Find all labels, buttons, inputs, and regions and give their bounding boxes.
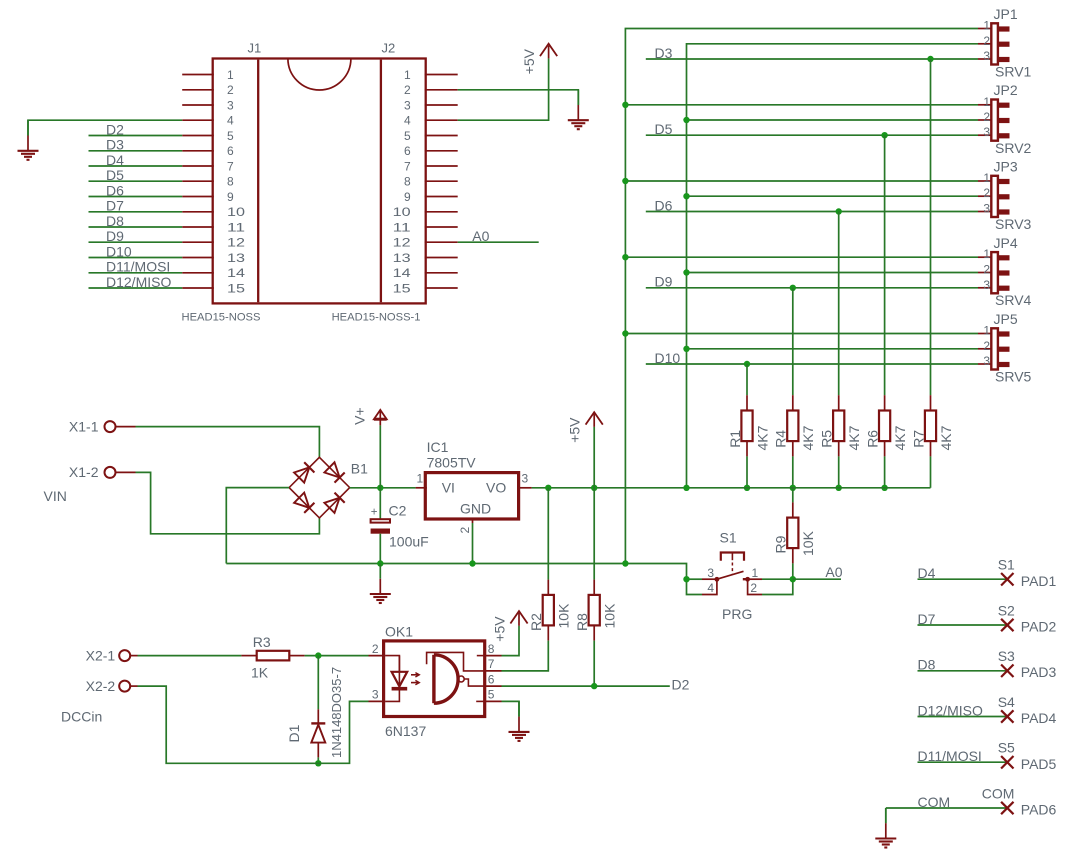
svg-text:6: 6 xyxy=(488,672,495,686)
svg-text:D8: D8 xyxy=(106,213,124,229)
svg-text:S2: S2 xyxy=(998,602,1015,618)
wire JP4 pin 2 branch xyxy=(687,272,979,274)
wire JP2 pin 2 branch xyxy=(687,119,979,121)
wire R9 bottom to A0 node xyxy=(792,563,794,579)
svg-text:D8: D8 xyxy=(918,657,936,673)
+5V supply arrow at J2 xyxy=(521,44,557,75)
junction D1 / X2-2 rail xyxy=(315,760,321,766)
svg-text:10K: 10K xyxy=(602,603,618,629)
svg-text:1: 1 xyxy=(983,171,990,185)
svg-text:R4: R4 xyxy=(773,430,789,448)
junction R2 / +5V rail xyxy=(545,485,551,491)
svg-text:14: 14 xyxy=(393,266,411,280)
J2 pin stubs xyxy=(425,75,458,289)
junction IC1 GND / rail xyxy=(469,560,475,566)
svg-text:13: 13 xyxy=(227,251,245,265)
svg-text:JP2: JP2 xyxy=(994,82,1018,98)
junction D3 / pull-up resistor xyxy=(927,56,933,62)
svg-text:3: 3 xyxy=(404,98,411,112)
svg-text:D5: D5 xyxy=(655,121,673,137)
wire S1 pin 2 to A0 junction xyxy=(762,579,793,594)
svg-text:2: 2 xyxy=(458,527,472,534)
svg-text:5: 5 xyxy=(227,129,234,143)
svg-text:COM: COM xyxy=(918,794,951,810)
junction D9 / pull-up resistor xyxy=(790,285,796,291)
svg-text:PRG: PRG xyxy=(722,606,752,622)
junction on GND bus row JP5 xyxy=(622,330,628,336)
svg-text:+5V: +5V xyxy=(521,48,537,74)
svg-text:S3: S3 xyxy=(998,648,1015,664)
wire R6 bottom to +5V rail xyxy=(884,456,886,487)
svg-text:2: 2 xyxy=(227,83,234,97)
junction D5 / pull-up resistor xyxy=(881,132,887,138)
svg-text:D6: D6 xyxy=(106,182,124,198)
svg-text:5: 5 xyxy=(404,129,411,143)
svg-text:JP4: JP4 xyxy=(994,235,1018,251)
ground symbol at OK1 xyxy=(509,701,530,741)
svg-text:PAD2: PAD2 xyxy=(1021,619,1057,635)
svg-text:+: + xyxy=(371,507,378,519)
svg-text:15: 15 xyxy=(227,281,245,295)
wire net D4 to PAD1 xyxy=(918,578,1008,580)
svg-text:D4: D4 xyxy=(106,152,124,168)
svg-text:4K7: 4K7 xyxy=(938,425,954,450)
svg-text:A0: A0 xyxy=(472,228,489,244)
svg-text:8: 8 xyxy=(404,175,411,189)
junction GND / S1 left xyxy=(683,576,689,582)
wire R2 bottom to OK1 pin 7 xyxy=(502,641,549,671)
pad X1-2 xyxy=(105,467,136,478)
connector JP2 xyxy=(978,100,1010,141)
wire JP3 pin 1 branch xyxy=(625,180,978,182)
junction R4 / +5V rail xyxy=(790,485,796,491)
svg-text:4K7: 4K7 xyxy=(846,425,862,450)
svg-text:10: 10 xyxy=(227,205,245,219)
svg-text:11: 11 xyxy=(393,220,411,234)
JP3 pin numbers xyxy=(983,171,990,216)
junction on +5V bus row JP2 xyxy=(683,117,689,123)
svg-text:3: 3 xyxy=(983,278,990,292)
svg-text:1: 1 xyxy=(983,95,990,109)
svg-text:2: 2 xyxy=(983,34,990,48)
wire R5 bottom to +5V rail xyxy=(838,456,840,487)
svg-text:8: 8 xyxy=(227,175,234,189)
wire R2 top to +5V rail xyxy=(547,488,549,580)
svg-text:S1: S1 xyxy=(998,557,1015,573)
wire R5 top to signal row xyxy=(838,212,840,396)
svg-text:1: 1 xyxy=(752,566,759,580)
svg-text:2: 2 xyxy=(983,186,990,200)
wire JP5 pin 1 branch xyxy=(625,333,978,335)
wire OK1 pin 8 to +5V xyxy=(502,626,520,656)
JP1 pin numbers xyxy=(983,19,990,64)
svg-text:3: 3 xyxy=(522,472,529,486)
pad X2-2 xyxy=(119,681,137,692)
svg-text:9: 9 xyxy=(227,190,234,204)
junction on GND bus row JP3 xyxy=(622,178,628,184)
svg-text:IC1: IC1 xyxy=(427,439,449,455)
svg-text:JP3: JP3 xyxy=(994,159,1018,175)
svg-text:JP1: JP1 xyxy=(994,6,1018,22)
svg-text:+5V: +5V xyxy=(492,616,508,642)
junction D10 / pull-up resistor xyxy=(744,361,750,367)
wire +5V net from J2 pin 2 to GND symbol xyxy=(458,90,579,105)
J1 pin stubs xyxy=(182,75,214,289)
junction R6 / +5V rail xyxy=(881,485,887,491)
svg-text:VO: VO xyxy=(486,480,506,496)
svg-text:12: 12 xyxy=(227,236,245,250)
OK1 internal gate xyxy=(427,652,484,703)
svg-text:D10: D10 xyxy=(655,350,681,366)
svg-text:COM: COM xyxy=(982,785,1015,801)
resistor R6 4K7 xyxy=(864,395,908,456)
wire net D9 at J1 pin 12 xyxy=(89,241,183,243)
wire +5V bus vertical (to JP pin 2s) xyxy=(687,44,979,488)
svg-text:OK1: OK1 xyxy=(385,624,413,640)
svg-text:100uF: 100uF xyxy=(389,533,429,549)
svg-text:12: 12 xyxy=(393,236,411,250)
svg-text:4K7: 4K7 xyxy=(892,425,908,450)
wire R4 bottom to +5V rail xyxy=(792,456,794,487)
junction GND bus / GND rail xyxy=(622,560,628,566)
wire net D8 at J1 pin 11 xyxy=(89,226,183,228)
svg-text:2: 2 xyxy=(372,642,379,656)
svg-text:VI: VI xyxy=(442,480,455,496)
bridge rectifier B1 xyxy=(289,457,350,518)
svg-text:1: 1 xyxy=(417,472,424,486)
svg-text:S1: S1 xyxy=(720,530,737,546)
resistor R7 4K7 xyxy=(910,395,954,456)
svg-text:3: 3 xyxy=(983,125,990,139)
svg-text:7: 7 xyxy=(404,159,411,173)
wire GND bus vertical (to JP pin 1s) xyxy=(625,29,978,564)
wire X2-2 to OK1 pin 3 xyxy=(138,686,369,763)
svg-text:SRV5: SRV5 xyxy=(995,369,1032,385)
svg-text:8: 8 xyxy=(488,642,495,656)
svg-text:D7: D7 xyxy=(918,611,936,627)
wire rail to C2 plus xyxy=(379,488,381,519)
junction on +5V bus row JP4 xyxy=(683,269,689,275)
wire net D8 to PAD3 xyxy=(918,670,1008,672)
wire net D3 at J1 pin 6 xyxy=(89,150,183,152)
svg-text:J2: J2 xyxy=(382,41,396,56)
svg-text:D5: D5 xyxy=(106,167,124,183)
wire +5V arrow through rail to R8 xyxy=(593,427,595,580)
svg-text:R1: R1 xyxy=(727,430,743,448)
svg-text:11: 11 xyxy=(227,220,245,234)
connector JP5 xyxy=(978,328,1010,369)
svg-text:4: 4 xyxy=(227,114,234,128)
junction on +5V bus row JP3 xyxy=(683,193,689,199)
connector J1/J2 header outline xyxy=(213,59,426,304)
svg-text:SRV4: SRV4 xyxy=(995,292,1032,308)
svg-text:VIN: VIN xyxy=(44,488,67,504)
voltage regulator IC1 7805TV xyxy=(416,473,532,523)
wire R3 to D1/OK1 node xyxy=(305,655,369,657)
wire net COM to PAD6 xyxy=(886,807,1008,809)
wire COM to ground xyxy=(885,808,887,823)
pad PAD2 xyxy=(1001,619,1013,631)
svg-text:D9: D9 xyxy=(106,228,124,244)
svg-text:7805TV: 7805TV xyxy=(427,454,477,470)
svg-text:R7: R7 xyxy=(910,430,926,448)
junction D6 / pull-up resistor xyxy=(836,208,842,214)
wire bridge minus to GND rail xyxy=(226,488,289,564)
wire OK1 pin 6 net D2 xyxy=(502,685,670,687)
resistor R2 10K xyxy=(528,580,572,641)
wire R7 top to signal row xyxy=(930,59,932,395)
svg-text:DCCin: DCCin xyxy=(61,709,102,725)
wire net D7 at J1 pin 10 xyxy=(89,211,183,213)
junction on GND bus row JP4 xyxy=(622,254,628,260)
svg-text:SRV2: SRV2 xyxy=(995,140,1032,156)
wire D1 top xyxy=(317,656,319,710)
wire R9 top to +5V rail xyxy=(792,488,794,503)
wire X1-2 to bridge AC2 xyxy=(136,472,320,533)
svg-text:S4: S4 xyxy=(998,694,1015,710)
junction +5V bus / rail xyxy=(683,485,689,491)
svg-text:15: 15 xyxy=(393,281,411,295)
svg-text:HEAD15-NOSS-1: HEAD15-NOSS-1 xyxy=(332,312,421,324)
switch S1 PRG xyxy=(702,553,762,595)
optocoupler OK1 6N137 xyxy=(369,641,502,717)
wire S1 pin 3 branch xyxy=(687,578,703,580)
svg-text:D9: D9 xyxy=(655,274,673,290)
wire OK1 pin 5 to ground xyxy=(502,701,520,716)
svg-text:X2-2: X2-2 xyxy=(86,678,116,694)
svg-text:R9: R9 xyxy=(773,535,789,553)
junction R3 / D1 xyxy=(315,652,321,658)
svg-text:X1-2: X1-2 xyxy=(69,464,99,480)
OK1 internal LED xyxy=(385,656,419,702)
wire net D6 at J1 pin 9 xyxy=(89,196,183,198)
svg-text:D2: D2 xyxy=(672,677,690,693)
wire V+ to rail xyxy=(379,425,381,487)
wire net D7 to PAD2 xyxy=(918,624,1008,626)
svg-text:J1: J1 xyxy=(248,41,262,56)
ground symbol at COM xyxy=(875,808,896,848)
svg-text:R6: R6 xyxy=(864,430,880,448)
svg-text:R5: R5 xyxy=(819,430,835,448)
pad PAD3 xyxy=(1001,665,1013,678)
svg-text:V+: V+ xyxy=(351,407,367,425)
svg-text:2: 2 xyxy=(404,83,411,97)
wire GND to J1 pin 4 xyxy=(28,120,182,135)
JP4 pin numbers xyxy=(983,247,990,292)
svg-text:6: 6 xyxy=(227,144,234,158)
wire R4 top to signal row xyxy=(792,288,794,395)
svg-text:D12/MISO: D12/MISO xyxy=(106,274,171,290)
svg-text:D7: D7 xyxy=(106,198,124,214)
resistor R1 4K7 xyxy=(727,395,771,456)
svg-text:B1: B1 xyxy=(351,461,368,477)
resistor R3 1K xyxy=(241,651,304,661)
svg-text:2: 2 xyxy=(750,581,757,595)
wire net A0 stub xyxy=(793,578,841,580)
svg-text:JP5: JP5 xyxy=(994,311,1018,327)
connector JP1 xyxy=(978,23,1010,64)
svg-text:6: 6 xyxy=(404,144,411,158)
svg-text:PAD6: PAD6 xyxy=(1021,802,1057,818)
resistor R5 4K7 xyxy=(819,395,863,456)
svg-text:2: 2 xyxy=(983,110,990,124)
wire IC1 GND pin to rail xyxy=(472,523,474,564)
wire net D9 to JP4 pin 3 xyxy=(646,287,978,289)
J2 pin numbers 1-15 xyxy=(393,68,411,295)
wire JP3 pin 2 branch xyxy=(687,195,979,197)
connector JP4 xyxy=(978,252,1010,293)
wire net D5 to JP2 pin 3 xyxy=(646,134,978,136)
svg-text:SRV3: SRV3 xyxy=(995,216,1032,232)
svg-text:14: 14 xyxy=(227,266,245,280)
wire net D5 at J1 pin 8 xyxy=(89,180,183,182)
junction A0 node xyxy=(790,576,796,582)
junction R8 / +5V rail xyxy=(591,485,597,491)
svg-text:3: 3 xyxy=(983,202,990,216)
+5V supply arrow at OK1 xyxy=(492,611,528,642)
wire JP4 pin 1 branch xyxy=(625,256,978,258)
junction R8 / D2 xyxy=(591,683,597,689)
svg-text:9: 9 xyxy=(404,190,411,204)
svg-text:7: 7 xyxy=(227,159,234,173)
wire X1-1 to bridge AC1 xyxy=(136,427,320,458)
OK1 pin numbers xyxy=(372,642,495,702)
S1 pin numbers xyxy=(707,566,758,595)
svg-text:SRV1: SRV1 xyxy=(995,64,1032,80)
ground symbol near J2 xyxy=(568,90,589,129)
wire net D2 at J1 pin 5 xyxy=(89,135,183,137)
pad PAD6 xyxy=(1001,802,1013,814)
resistor R4 4K7 xyxy=(773,395,817,456)
svg-text:D1: D1 xyxy=(286,724,302,742)
svg-text:1N4148DO35-7: 1N4148DO35-7 xyxy=(329,667,344,758)
svg-text:X1-1: X1-1 xyxy=(69,418,99,434)
pad PAD5 xyxy=(1001,756,1013,769)
svg-text:A0: A0 xyxy=(825,564,842,580)
wire net D4 at J1 pin 7 xyxy=(89,165,183,167)
svg-text:R8: R8 xyxy=(574,613,590,631)
svg-text:HEAD15-NOSS: HEAD15-NOSS xyxy=(182,312,261,324)
pad PAD1 xyxy=(1001,573,1013,586)
pad X2-1 xyxy=(119,650,137,661)
svg-text:10K: 10K xyxy=(800,530,816,556)
svg-text:D11/MOSI: D11/MOSI xyxy=(106,259,170,275)
wire net D3 to JP1 pin 3 xyxy=(646,58,978,60)
svg-text:10: 10 xyxy=(393,205,411,219)
junction on GND bus row JP2 xyxy=(622,102,628,108)
wire net D12/MISO to PAD4 xyxy=(918,716,1008,718)
V+ supply symbol xyxy=(351,407,386,425)
svg-text:D10: D10 xyxy=(106,243,132,259)
svg-text:D12/MISO: D12/MISO xyxy=(918,702,983,718)
JP2 pin numbers xyxy=(983,95,990,139)
wire R1 bottom to +5V rail xyxy=(746,456,748,487)
svg-text:PAD1: PAD1 xyxy=(1021,573,1057,589)
svg-text:+5V: +5V xyxy=(567,417,583,443)
wire net D12/MISO at J1 pin 15 xyxy=(89,287,183,289)
resistor R8 10K xyxy=(574,580,618,641)
junction R5 / +5V rail xyxy=(836,485,842,491)
wire net D11/MOSI at J1 pin 14 xyxy=(89,272,183,274)
capacitor C2 100uF xyxy=(371,507,390,534)
resistor R9 10K xyxy=(773,502,817,563)
wire D1 bottom junction xyxy=(317,757,319,763)
svg-text:PAD5: PAD5 xyxy=(1021,756,1057,772)
svg-text:4: 4 xyxy=(707,581,714,595)
svg-text:1K: 1K xyxy=(251,665,269,681)
svg-text:6N137: 6N137 xyxy=(385,723,426,739)
svg-text:10K: 10K xyxy=(556,603,572,629)
svg-text:D2: D2 xyxy=(106,121,124,137)
svg-text:1: 1 xyxy=(983,247,990,261)
wire net D11/MOSI to PAD5 xyxy=(918,761,1008,763)
wire +5V from J2 pin 4 xyxy=(458,58,549,120)
wire GND rail to switch S1 xyxy=(625,564,702,595)
wire GND rail xyxy=(226,563,625,565)
svg-text:4: 4 xyxy=(404,114,411,128)
wire +5V rail xyxy=(532,487,931,489)
svg-text:1: 1 xyxy=(227,68,234,82)
ground symbol at J1 pin 4 xyxy=(18,120,39,160)
wire net D6 to JP3 pin 3 xyxy=(646,211,978,213)
svg-text:3: 3 xyxy=(983,354,990,368)
junction on +5V bus row JP5 xyxy=(683,346,689,352)
wire R8 bottom to D2 node xyxy=(593,641,595,687)
svg-text:D3: D3 xyxy=(655,45,673,61)
svg-text:D11/MOSI: D11/MOSI xyxy=(918,748,982,764)
svg-text:2: 2 xyxy=(983,263,990,277)
svg-text:1: 1 xyxy=(983,324,990,338)
J1 pin numbers 1-15 xyxy=(227,68,245,295)
svg-text:1: 1 xyxy=(983,19,990,33)
svg-text:GND: GND xyxy=(460,501,491,517)
wire JP2 pin 1 branch xyxy=(625,104,978,106)
ground symbol below C2 xyxy=(370,564,391,604)
wire R7 bottom to +5V rail xyxy=(930,456,932,487)
svg-text:S5: S5 xyxy=(998,740,1015,756)
pad X1-1 xyxy=(105,421,136,432)
svg-text:X2-1: X2-1 xyxy=(86,647,116,663)
wire S1 pin 1 to A0 junction xyxy=(762,578,793,580)
wire R6 top to signal row xyxy=(884,135,886,395)
svg-text:3: 3 xyxy=(372,688,379,702)
svg-text:3: 3 xyxy=(983,49,990,63)
+5V supply arrow above R8 xyxy=(567,412,603,443)
wire bridge plus to IC1 VI xyxy=(350,487,416,489)
wire net D10 to JP5 pin 3 xyxy=(646,363,978,365)
svg-text:D3: D3 xyxy=(106,137,124,153)
IC1 pin names VI VO GND xyxy=(442,480,507,517)
svg-text:7: 7 xyxy=(488,657,495,671)
svg-text:2: 2 xyxy=(983,339,990,353)
pad PAD4 xyxy=(1001,710,1013,722)
svg-text:5: 5 xyxy=(488,688,495,702)
junction C2 / GND rail xyxy=(377,560,383,566)
svg-text:4K7: 4K7 xyxy=(800,425,816,450)
wire R1 top to signal row xyxy=(746,364,748,395)
svg-text:4K7: 4K7 xyxy=(754,425,770,450)
wire A0 from J2 pin 12 xyxy=(458,241,539,243)
svg-text:D6: D6 xyxy=(655,197,673,213)
svg-text:1: 1 xyxy=(404,68,411,82)
diode D1 1N4148DO35-7 xyxy=(311,709,325,757)
junction V+ node xyxy=(377,485,383,491)
connector JP3 xyxy=(978,176,1010,217)
svg-text:R2: R2 xyxy=(528,613,544,631)
wire C2 minus to GND rail xyxy=(379,534,381,564)
svg-text:13: 13 xyxy=(393,251,411,265)
svg-text:3: 3 xyxy=(707,566,714,580)
